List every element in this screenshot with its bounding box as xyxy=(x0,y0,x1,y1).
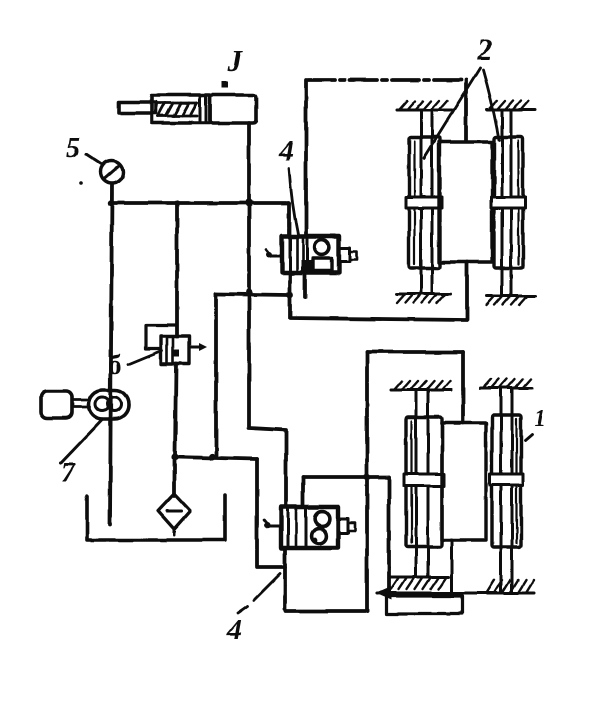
tank xyxy=(87,495,225,540)
svg-text:J: J xyxy=(226,43,244,78)
wire valve6 drain xyxy=(175,364,176,457)
node frame cross xyxy=(364,474,371,481)
wire frame top xyxy=(367,350,463,354)
cyl1 right body xyxy=(492,415,521,547)
node manifold-cyl3 xyxy=(245,199,253,207)
motor M xyxy=(41,391,72,418)
cyl2 left piston xyxy=(406,197,442,208)
wire valve4top BR stub xyxy=(303,273,307,297)
svg-text:б: б xyxy=(108,350,122,380)
node B xyxy=(287,292,294,299)
anchor top-right (cyl 2) xyxy=(487,101,535,110)
node manifold-valve6 xyxy=(174,200,179,205)
leader 4 top xyxy=(289,168,298,234)
wire valve4top TL port xyxy=(287,203,291,236)
wire filter stub xyxy=(172,457,176,496)
cyl1 left piston xyxy=(404,474,444,486)
anchor bottom-right (cyl 2) xyxy=(487,296,535,305)
cyl2 left body xyxy=(409,137,440,268)
cylinder 3 right block xyxy=(210,95,256,123)
gauge 5 xyxy=(101,161,124,184)
wire dash-dot top xyxy=(308,78,466,82)
cylinder 3 body xyxy=(152,95,210,123)
leader 7 xyxy=(61,419,103,463)
label 5 xyxy=(66,133,80,164)
valve 6 pilot loop xyxy=(146,325,176,349)
valve 6 relief xyxy=(161,336,189,364)
wire valve4bot bottom drop xyxy=(283,548,287,609)
cyl1 center rod xyxy=(451,540,454,596)
wire column x216 xyxy=(214,294,218,456)
valve 4 top xyxy=(282,236,339,273)
wire crossbar y294 xyxy=(216,294,290,295)
node junction row left xyxy=(171,453,178,460)
cyl2 right rod xyxy=(501,110,504,296)
wire A to valve4bot feed xyxy=(249,292,286,507)
wire dashdot right drop xyxy=(464,80,468,141)
node manifold-left xyxy=(108,200,114,206)
svg-text:1: 1 xyxy=(534,406,546,432)
valve 6 arrow xyxy=(189,343,207,351)
label 4 top xyxy=(278,135,294,167)
svg-text:4: 4 xyxy=(226,614,242,646)
wire valve4bot TR loop xyxy=(301,477,305,507)
cyl1 left rod xyxy=(415,390,418,577)
node A xyxy=(246,289,253,296)
speck xyxy=(79,181,83,185)
wire pump column xyxy=(110,184,112,524)
platform 2 xyxy=(439,142,492,262)
cyl1 left body xyxy=(406,417,442,547)
cylinder 3 spring xyxy=(157,103,197,116)
wire valve4top BL to platform xyxy=(290,262,467,320)
leader 4 bottom xyxy=(254,574,280,600)
wire valve4top TR riser xyxy=(304,80,308,236)
cyl1 right piston xyxy=(490,474,523,485)
coupling xyxy=(72,399,90,402)
label 1 xyxy=(534,406,546,432)
cyl1 right rod xyxy=(500,388,503,592)
svg-text:5: 5 xyxy=(66,133,80,164)
cylinder 3 rod xyxy=(119,102,156,113)
platform 1 xyxy=(442,423,486,540)
table box xyxy=(386,596,462,614)
anchor bottom-left (cyl 1) xyxy=(391,577,449,589)
anchor top-left (cyl 2) xyxy=(397,101,452,110)
label 4 bottom xyxy=(226,614,242,646)
cyl2 left rod xyxy=(420,110,423,294)
leader 2 left xyxy=(424,68,480,158)
cyl2 right piston xyxy=(491,197,525,208)
anchor top-left (cyl 1) xyxy=(391,381,451,390)
wire frame right drop xyxy=(461,352,465,423)
leader 2 right xyxy=(483,70,499,140)
wire bottom run to frame xyxy=(286,609,367,613)
filter xyxy=(158,494,190,529)
pump 7 xyxy=(89,390,129,419)
wire junction row xyxy=(175,457,257,459)
label 7 xyxy=(61,458,76,489)
label 6 xyxy=(108,350,122,380)
wire manifold xyxy=(110,201,289,205)
valve 4 bottom lever xyxy=(264,520,281,528)
leader 5 xyxy=(86,154,103,165)
cylinder 3 tick xyxy=(222,81,228,88)
wire bypass down xyxy=(257,459,285,567)
anchor top-right (cyl 1) xyxy=(480,379,532,388)
valve 4 bottom actuator xyxy=(338,519,355,533)
cyl2 right body xyxy=(494,137,523,268)
svg-text:4: 4 xyxy=(278,135,294,167)
anchor bottom-left (cyl 2) xyxy=(397,294,450,303)
leader 1 xyxy=(525,434,532,440)
valve 4 top actuator xyxy=(339,248,357,262)
anchor bottom-right (cyl 1) xyxy=(486,580,534,593)
valve 4 top lever xyxy=(266,250,282,258)
label 3 (cylinder) xyxy=(226,43,244,78)
node junction row right xyxy=(208,453,215,460)
svg-text:2: 2 xyxy=(476,32,493,67)
valve 4 bottom xyxy=(281,507,338,548)
wire cylinder3 down xyxy=(247,123,251,292)
wire filter bottom stub xyxy=(173,528,176,535)
leader 6 xyxy=(128,351,162,365)
wire frame left riser xyxy=(365,352,369,611)
label 2 xyxy=(476,32,493,67)
table line with arrow xyxy=(377,592,534,595)
cylinder 3 piston xyxy=(199,96,202,122)
wire valve6 feed xyxy=(175,203,179,336)
